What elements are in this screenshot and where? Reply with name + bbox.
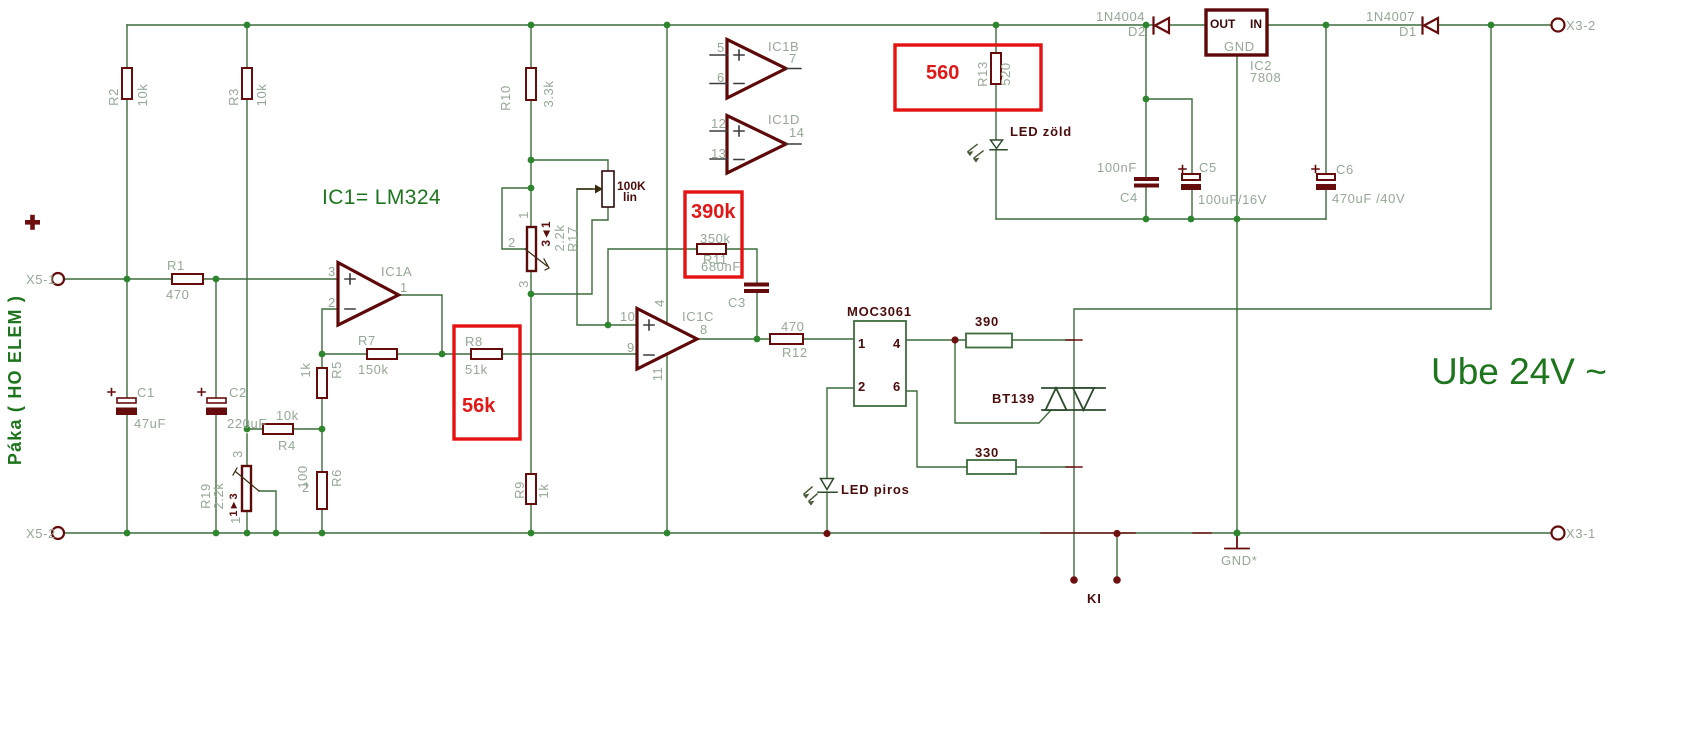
svg-text:C3: C3: [728, 295, 746, 310]
wire R3 branch: [246, 25, 248, 533]
svg-text:R17: R17: [565, 226, 580, 252]
op-amp IC1B input stubs: [710, 55, 801, 84]
pin 14 IC1D: [789, 125, 804, 140]
MOC pin 4: [893, 336, 901, 351]
value 470 R1: [166, 287, 190, 302]
label R8: [465, 334, 483, 349]
capacitor C5: [1179, 166, 1201, 191]
label C3: [728, 295, 746, 310]
value 520: [998, 62, 1013, 86]
label IC1C: [682, 309, 714, 324]
label R4: [278, 438, 296, 453]
svg-text:D1: D1: [1399, 24, 1417, 39]
label IN: [1250, 17, 1262, 31]
svg-text:1: 1: [400, 280, 408, 295]
330 resistor (green): [967, 460, 1016, 474]
label C2: [229, 385, 247, 400]
svg-text:2.2k: 2.2k: [552, 225, 567, 252]
value 10k R3: [254, 84, 269, 107]
label X3-2: [1566, 18, 1596, 33]
value 470uF /40V: [1332, 191, 1405, 206]
R19 pin 2: [302, 480, 310, 495]
wire IC1A pin2 loop: [322, 309, 338, 354]
value 47uF: [134, 416, 166, 431]
label C4: [1120, 190, 1138, 205]
LED zold arrows: [967, 145, 983, 163]
red text 56k: [462, 395, 496, 417]
wire R7 row: [322, 353, 442, 355]
IC2 7808 regulator box: [1206, 10, 1267, 55]
svg-text:1N4004: 1N4004: [1096, 9, 1145, 24]
op-amp IC1B: [727, 40, 786, 99]
svg-text:R6: R6: [329, 469, 344, 487]
label D2: [1128, 24, 1146, 39]
junction dots green: [124, 22, 1495, 537]
value 10k R2: [135, 84, 150, 107]
label R1: [167, 258, 185, 273]
svg-text:IC1C: IC1C: [682, 309, 714, 324]
red highlight box 56k: [454, 326, 520, 439]
svg-text:1: 1: [516, 211, 531, 219]
svg-text:BT139: BT139: [992, 391, 1035, 406]
label KI: [1087, 591, 1102, 606]
resistor R3: [242, 68, 252, 99]
svg-text:C2: C2: [229, 385, 247, 400]
svg-text:51k: 51k: [465, 362, 488, 377]
value 220uF: [227, 416, 267, 431]
wire triac T1 down to KI: [1073, 410, 1075, 580]
svg-text:Ube 24V ~: Ube 24V ~: [1431, 351, 1607, 392]
svg-text:390: 390: [975, 314, 999, 329]
wire top bus D2 to IC2: [1169, 24, 1206, 26]
label R2: [106, 88, 121, 106]
terminal X5-1: [52, 273, 64, 285]
svg-text:D2: D2: [1128, 24, 1146, 39]
wire R11 feedback loop: [608, 249, 757, 325]
svg-text:3◄1: 3◄1: [539, 221, 553, 247]
svg-text:2: 2: [302, 480, 310, 495]
wire IC1 power rail: [666, 25, 668, 533]
wire gate loop to triac: [955, 340, 1051, 423]
svg-text:MOC3061: MOC3061: [847, 304, 912, 319]
value 51k: [465, 362, 488, 377]
svg-text:220uF: 220uF: [227, 416, 267, 431]
red highlight box 560: [895, 45, 1041, 110]
label IC1B: [768, 39, 799, 54]
label IC2: [1250, 58, 1272, 73]
label GND inside IC2: [1224, 39, 1255, 54]
value 470 R12: [781, 319, 805, 334]
potentiometer R17 wiper: [525, 249, 549, 270]
svg-text:IC1= LM324: IC1= LM324: [322, 186, 441, 209]
label R13: [975, 61, 990, 87]
label C1: [137, 385, 155, 400]
label BT139: [992, 391, 1035, 406]
R17 pin 1: [516, 211, 531, 219]
svg-text:R2: R2: [106, 88, 121, 106]
wire top bus D1 to X3-2: [1438, 24, 1551, 26]
wire MOC pin6 to 330: [906, 391, 1074, 467]
svg-text:100uF/16V: 100uF/16V: [1198, 192, 1267, 207]
wire R4 row: [247, 428, 322, 430]
capacitor C2: [198, 389, 227, 416]
svg-text:12: 12: [711, 116, 726, 131]
svg-text:C4: C4: [1120, 190, 1138, 205]
label 100K: [617, 179, 646, 193]
wire R19 wiper drop: [259, 491, 276, 533]
wire triac T2 up and across to X3-2 branch: [1074, 25, 1491, 410]
label C5: [1199, 160, 1217, 175]
wire R2 branch: [126, 25, 128, 279]
pin 3 IC1A: [328, 264, 336, 279]
svg-text:100nF: 100nF: [1097, 160, 1137, 175]
pin 7 IC1B: [789, 51, 797, 66]
svg-text:11: 11: [650, 367, 665, 381]
wire top bus left segment: [127, 24, 1152, 26]
svg-text:4: 4: [652, 299, 667, 307]
svg-text:3: 3: [328, 264, 336, 279]
resistor R12: [770, 334, 803, 344]
wire MOC pin2 to LED piros: [827, 388, 854, 533]
svg-text:8: 8: [700, 322, 708, 337]
label X3-1: [1566, 526, 1596, 541]
label X5-1: [26, 272, 56, 287]
value 10k R4: [276, 408, 299, 423]
svg-text:1: 1: [858, 336, 866, 351]
svg-text:13: 13: [711, 146, 726, 161]
svg-text:R13: R13: [975, 61, 990, 87]
svg-text:LED piros: LED piros: [841, 482, 910, 497]
wire IC2 GND rail: [1236, 55, 1238, 533]
label 1N4007: [1366, 9, 1415, 24]
svg-text:R8: R8: [465, 334, 483, 349]
svg-text:IC1A: IC1A: [381, 264, 412, 279]
svg-text:X5-2: X5-2: [26, 526, 56, 541]
MOC3061 box: [854, 321, 906, 406]
wire divider to 100K pot top: [531, 160, 608, 171]
wire D2 branch down: [1145, 25, 1147, 219]
svg-text:lin: lin: [623, 190, 637, 204]
resistor R7: [367, 349, 397, 359]
wire C3 bottom to output node: [756, 293, 758, 339]
wire C6 branch: [1325, 25, 1327, 219]
value 7808: [1250, 70, 1281, 85]
svg-text:KI: KI: [1087, 591, 1102, 606]
svg-text:C1: C1: [137, 385, 155, 400]
label LED piros: [841, 482, 910, 497]
svg-text:LED zöld: LED zöld: [1010, 124, 1072, 139]
svg-text:6: 6: [717, 70, 725, 85]
pin 11 IC1C power: [650, 367, 665, 381]
capacitor C1: [108, 389, 137, 416]
svg-text:GND: GND: [1224, 39, 1255, 54]
potentiometer R17 body: [527, 227, 536, 271]
terminal X3-1: [1552, 527, 1565, 540]
svg-text:7808: 7808: [1250, 70, 1281, 85]
label R17 rotated: [565, 226, 580, 252]
svg-text:330: 330: [975, 445, 999, 460]
label R5: [329, 361, 344, 379]
svg-text:IC1B: IC1B: [768, 39, 799, 54]
label GND*: [1221, 553, 1257, 568]
svg-text:2: 2: [858, 379, 866, 394]
title Ube 24V ~: [1431, 351, 1607, 392]
junction dots maroon: [823, 336, 1120, 583]
svg-text:R4: R4: [278, 438, 296, 453]
resistor R6: [317, 472, 327, 509]
svg-text:Páka ( HO ELEM ): Páka ( HO ELEM ): [5, 295, 25, 465]
wire R8 row to IC1C pin9: [442, 353, 637, 355]
svg-text:390k: 390k: [691, 201, 736, 223]
terminal X5-2: [52, 527, 64, 539]
svg-text:10: 10: [620, 309, 635, 324]
op-amp IC1D: [727, 116, 786, 174]
label R10: [498, 85, 513, 111]
svg-text:10k: 10k: [276, 408, 299, 423]
svg-text:IC1D: IC1D: [768, 112, 800, 127]
svg-text:150k: 150k: [358, 362, 389, 377]
capacitor C4: [1134, 177, 1159, 188]
MOC pin 1: [858, 336, 866, 351]
pin 9 IC1C: [627, 340, 635, 355]
svg-text:3: 3: [516, 280, 531, 288]
label R9: [512, 481, 527, 499]
pin 10 IC1C: [620, 309, 635, 324]
wire 100K wiper to IC1C pin10: [577, 189, 637, 325]
pin 1 IC1A: [400, 280, 408, 295]
resistor R8: [471, 349, 502, 359]
R19 pin 1: [228, 516, 243, 524]
wire low-voltage rail: [996, 218, 1326, 220]
wire R13 LED branch: [995, 25, 997, 219]
label LED zold: [1010, 124, 1072, 139]
svg-text:1k: 1k: [298, 363, 313, 378]
value 3.3k: [541, 81, 556, 108]
label 1N4004: [1096, 9, 1145, 24]
potentiometer R19 wiper: [233, 468, 259, 491]
pin 4 IC1C power: [652, 299, 667, 307]
label OUT: [1210, 17, 1236, 31]
svg-text:2: 2: [328, 295, 336, 310]
svg-text:470: 470: [166, 287, 190, 302]
wire C2 branch: [215, 279, 217, 533]
svg-text:2: 2: [508, 235, 516, 250]
wire R9 branch: [530, 294, 532, 533]
svg-text:47uF: 47uF: [134, 416, 166, 431]
svg-text:1: 1: [228, 516, 243, 524]
potentiometer 100K wiper arrow: [577, 185, 603, 194]
title Paka ( HO ELEM ): [5, 295, 25, 465]
wire bottom bus: [65, 532, 1552, 534]
svg-text:R1: R1: [167, 258, 185, 273]
label D1: [1399, 24, 1417, 39]
label R7: [358, 333, 376, 348]
390 resistor (green): [966, 334, 1012, 348]
wire C1 branch: [126, 279, 128, 533]
value 150k: [358, 362, 389, 377]
svg-text:X3-2: X3-2: [1566, 18, 1596, 33]
red highlight box 390k: [685, 192, 742, 277]
op-amp IC1A: [338, 263, 399, 326]
svg-text:10k: 10k: [135, 84, 150, 107]
wire R10 branch: [530, 25, 532, 294]
svg-text:520: 520: [998, 62, 1013, 86]
value 2.2k R19: [211, 483, 226, 510]
op-amp IC1C: [637, 309, 697, 370]
svg-text:1N4007: 1N4007: [1366, 9, 1415, 24]
pin 5 IC1B: [717, 40, 725, 55]
label MOC3061: [847, 304, 912, 319]
value 350k R11: [700, 231, 731, 246]
svg-text:R12: R12: [782, 345, 808, 360]
plus symbol: [25, 215, 40, 230]
label R19 rotated: [198, 483, 213, 509]
wire X5-1 row: [65, 278, 338, 280]
R19 wiper mark 1-3: [228, 493, 240, 516]
wire IC1C output row: [696, 338, 854, 340]
pin 13 IC1D: [711, 146, 726, 161]
LED zold symbol: [990, 140, 1007, 150]
value 100uF/16V: [1198, 192, 1267, 207]
value 1k R5: [298, 363, 313, 378]
value 100 R6: [295, 465, 310, 489]
label R12: [782, 345, 808, 360]
label R3: [226, 88, 241, 106]
wire KI second terminal: [1116, 533, 1118, 580]
wire R5 R6 branch: [321, 354, 323, 533]
pin 8 IC1C: [700, 322, 708, 337]
svg-text:R10: R10: [498, 85, 513, 111]
diode D2: [1154, 18, 1170, 34]
resistor R1: [172, 274, 203, 284]
label X5-2: [26, 526, 56, 541]
label IC1A: [381, 264, 412, 279]
svg-text:R7: R7: [358, 333, 376, 348]
capacitor C3: [744, 283, 769, 294]
ground symbol GND*: [1225, 534, 1249, 549]
resistor R10: [526, 68, 536, 100]
svg-text:R9: R9: [512, 481, 527, 499]
label IC1D: [768, 112, 800, 127]
wire IC1A output: [398, 295, 442, 354]
R17 pin 3: [516, 280, 531, 288]
svg-text:3.3k: 3.3k: [541, 81, 556, 108]
resistor R4: [263, 424, 293, 434]
svg-text:IN: IN: [1250, 17, 1262, 31]
terminal X3-2: [1552, 19, 1565, 32]
resistor R9: [526, 474, 536, 504]
svg-text:1►3: 1►3: [228, 493, 240, 516]
resistor R2: [122, 68, 132, 99]
svg-text:10k: 10k: [254, 84, 269, 107]
svg-text:X5-1: X5-1: [26, 272, 56, 287]
title IC1= LM324: [322, 186, 441, 209]
R17 wiper mark 3-1: [539, 221, 553, 247]
svg-text:2.2k: 2.2k: [211, 483, 226, 510]
value 2.2k R17: [552, 225, 567, 252]
svg-text:6: 6: [893, 379, 901, 394]
LED piros arrows: [803, 487, 817, 506]
svg-text:OUT: OUT: [1210, 17, 1236, 31]
label lin: [623, 190, 637, 204]
capacitor C6: [1312, 166, 1336, 191]
svg-text:5: 5: [717, 40, 725, 55]
value 330: [975, 445, 999, 460]
svg-text:3: 3: [230, 450, 245, 458]
diode D1: [1423, 18, 1439, 34]
label R11: [703, 252, 728, 267]
potentiometer 100K body: [602, 171, 614, 207]
svg-text:56k: 56k: [462, 395, 496, 417]
resistor R5: [317, 368, 327, 398]
value 1k R9: [536, 484, 551, 499]
wire MOC pin4 row: [906, 339, 1074, 341]
pin 2 IC1A: [328, 295, 336, 310]
R17 pin 2: [508, 235, 516, 250]
resistor R13: [991, 53, 1001, 84]
value 100nF: [1097, 160, 1137, 175]
red text 560: [926, 62, 959, 84]
svg-text:680nF: 680nF: [701, 259, 741, 274]
svg-text:560: 560: [926, 62, 959, 84]
op-amp IC1D input stubs: [710, 131, 801, 159]
svg-text:C5: C5: [1199, 160, 1217, 175]
triac BT139: [1042, 388, 1105, 410]
KI switch overdraw on bus: [1041, 340, 1211, 533]
svg-text:4: 4: [893, 336, 901, 351]
resistor R11: [697, 244, 726, 254]
svg-text:X3-1: X3-1: [1566, 526, 1596, 541]
MOC pin 6: [893, 379, 901, 394]
LED piros symbol: [818, 479, 837, 493]
label R6: [329, 469, 344, 487]
R19 pin 3: [230, 450, 245, 458]
svg-text:14: 14: [789, 125, 804, 140]
svg-text:470: 470: [781, 319, 805, 334]
MOC pin 2: [858, 379, 866, 394]
svg-text:R3: R3: [226, 88, 241, 106]
svg-text:470uF /40V: 470uF /40V: [1332, 191, 1405, 206]
svg-text:R5: R5: [329, 361, 344, 379]
svg-text:C6: C6: [1336, 162, 1354, 177]
svg-text:GND*: GND*: [1221, 553, 1257, 568]
potentiometer R19 body: [242, 466, 251, 511]
wire R17 pin2 loop: [502, 188, 531, 249]
pin 6 IC1B: [717, 70, 725, 85]
svg-text:350k: 350k: [700, 231, 731, 246]
svg-text:9: 9: [627, 340, 635, 355]
wire 100K pot bottom loop: [531, 207, 608, 294]
svg-text:1k: 1k: [536, 484, 551, 499]
label C6: [1336, 162, 1354, 177]
red text 390k: [691, 201, 736, 223]
value 680nF: [701, 259, 741, 274]
wire top bus IC2 to D1: [1267, 24, 1421, 26]
wire C5 branch: [1146, 99, 1192, 219]
pin 12 IC1D: [711, 116, 726, 131]
value 390: [975, 314, 999, 329]
